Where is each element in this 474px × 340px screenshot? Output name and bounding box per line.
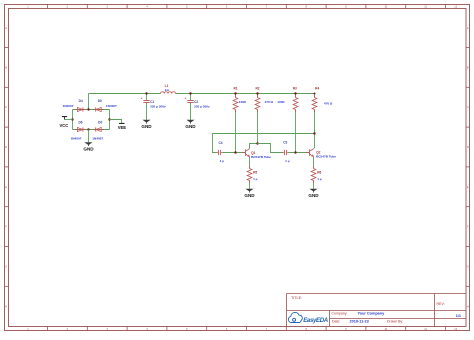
svg-text:470 Ω: 470 Ω: [324, 102, 333, 106]
svg-text:REV:: REV:: [437, 302, 445, 306]
svg-text:220 µ 300v: 220 µ 300v: [150, 105, 166, 109]
svg-text:220 µ 300v: 220 µ 300v: [194, 105, 210, 109]
wire VEE stub: [110, 120, 122, 124]
ground C1: [141, 120, 152, 129]
svg-text:1 µ: 1 µ: [220, 159, 225, 163]
svg-text:1N4007: 1N4007: [106, 104, 117, 108]
svg-text:R5: R5: [253, 171, 257, 175]
title block Company row: [332, 311, 386, 315]
wire C2 stubs: [190, 94, 192, 120]
svg-text:1 µ: 1 µ: [317, 177, 322, 181]
wire bridge right column: [109, 110, 111, 130]
svg-text:1 µ: 1 µ: [285, 159, 290, 163]
node bridge top junction: [87, 108, 89, 110]
svg-text:1N4007: 1N4007: [71, 136, 82, 140]
svg-text:Your Company: Your Company: [358, 311, 386, 315]
wire bridge bottom row: [73, 129, 110, 131]
ground bridge: [83, 142, 94, 151]
svg-text:C3: C3: [283, 141, 287, 145]
svg-text:1m: 1m: [165, 88, 170, 92]
svg-text:C: C: [5, 105, 7, 109]
svg-text:+: +: [141, 97, 143, 101]
svg-text:BC547B Tube: BC547B Tube: [316, 155, 336, 159]
wire Q2 emitter: [313, 157, 315, 189]
svg-text:E: E: [5, 185, 7, 189]
svg-text:D4: D4: [79, 99, 83, 103]
svg-text:470 Ω: 470 Ω: [265, 100, 274, 104]
node C1 bus junction: [145, 92, 147, 94]
wire bridge ground stem: [88, 130, 90, 143]
node C2 bus junction: [189, 92, 191, 94]
svg-text:1N4007: 1N4007: [92, 136, 103, 140]
svg-text:H: H: [467, 304, 469, 308]
svg-text:VCC: VCC: [59, 123, 68, 128]
wire R2 column: [257, 94, 259, 144]
net flag VEE: [118, 123, 127, 129]
node bridge right junction: [108, 118, 110, 120]
svg-text:Date:: Date:: [332, 320, 340, 324]
resistor R2: [255, 87, 273, 113]
svg-text:G: G: [5, 264, 7, 268]
svg-text:E: E: [467, 185, 469, 189]
resistor R1: [233, 87, 247, 113]
svg-text:GND: GND: [185, 124, 196, 129]
svg-text:VEE: VEE: [118, 125, 127, 130]
inductor L1: [161, 84, 176, 93]
svg-text:BC547B Tube: BC547B Tube: [251, 155, 271, 159]
wire main bus left segment: [89, 93, 161, 95]
svg-text:A: A: [467, 26, 469, 30]
svg-text:C4: C4: [218, 141, 222, 145]
node Q1 collector junction: [256, 142, 258, 144]
svg-text:C: C: [467, 105, 469, 109]
node Q1 base junction: [234, 151, 236, 153]
wire C1 stubs: [146, 94, 148, 120]
svg-text:EasyEDA: EasyEDA: [303, 317, 328, 324]
svg-text:A: A: [5, 26, 7, 30]
svg-text:D0: D0: [98, 120, 102, 124]
title block Date row: [332, 320, 403, 324]
svg-text:GND: GND: [244, 193, 255, 198]
node R4 bus junction: [314, 93, 316, 95]
svg-text:100K: 100K: [277, 100, 285, 104]
svg-text:2019-11-23: 2019-11-23: [350, 320, 369, 324]
svg-text:D: D: [5, 145, 7, 149]
svg-text:B: B: [5, 65, 7, 69]
svg-text:R4: R4: [315, 87, 319, 91]
ground R6: [308, 189, 319, 198]
svg-text:GND: GND: [141, 124, 152, 129]
svg-text:D6: D6: [78, 120, 82, 124]
node R2 bus junction: [256, 92, 258, 94]
svg-text:B: B: [467, 65, 469, 69]
node R3 bus junction: [294, 92, 296, 94]
svg-text:G: G: [467, 264, 469, 268]
diode D0 bottom right: [92, 120, 103, 140]
wire C4 to Q1 base: [222, 152, 245, 154]
wire VCC stub: [65, 119, 73, 121]
EasyEDA logo: [288, 312, 327, 324]
svg-text:1/1: 1/1: [456, 314, 461, 318]
node bridge left junction: [71, 118, 73, 120]
resistor R4: [312, 87, 333, 113]
wire Q1 collector jog: [250, 144, 258, 149]
svg-text:1 µ: 1 µ: [253, 177, 258, 181]
svg-text:Company:: Company:: [332, 311, 348, 315]
diode D0 top right: [93, 99, 117, 112]
svg-text:R1: R1: [233, 87, 237, 91]
node Q2 base junction: [294, 151, 296, 153]
wire Q1 collector to C3: [258, 144, 283, 153]
resistor R3: [277, 87, 298, 113]
svg-text:GND: GND: [308, 193, 319, 198]
diode D6: [71, 120, 86, 140]
wire Q2 collector to C4 loop: [213, 134, 315, 153]
svg-text:GND: GND: [83, 147, 94, 152]
resistor R6: [311, 166, 322, 183]
wire R1 column: [235, 94, 237, 153]
resistor R5: [247, 166, 258, 183]
svg-text:R6: R6: [317, 171, 321, 175]
svg-text:R3: R3: [293, 87, 297, 91]
svg-text:Drawn By:: Drawn By:: [387, 320, 403, 324]
svg-text:100K: 100K: [239, 100, 247, 104]
svg-text:+: +: [185, 97, 187, 101]
wire main bus right segment: [176, 93, 315, 95]
node Q2 collector junction: [313, 132, 315, 134]
title block sheet 1/1: [456, 314, 461, 318]
net flag VCC: [59, 117, 68, 129]
transistor Q2: [306, 149, 336, 159]
wire R3 column: [295, 94, 297, 153]
ground C2: [185, 120, 196, 129]
title block grid: [287, 294, 467, 327]
capacitor C3: [282, 141, 290, 164]
svg-text:D0: D0: [98, 99, 102, 103]
svg-text:TITLE:: TITLE:: [291, 296, 302, 300]
node bridge bottom junction: [87, 128, 89, 130]
wire Q1 emitter: [249, 157, 251, 189]
svg-text:D: D: [467, 145, 469, 149]
node R1 bus junction: [234, 92, 236, 94]
wire bridge top row: [73, 109, 110, 111]
capacitor C1: [141, 97, 166, 109]
wire C3 to Q2 base: [288, 152, 309, 154]
title block TITLE label: [291, 296, 302, 300]
wire bridge left column: [72, 110, 74, 130]
capacitor C2: [185, 97, 210, 109]
svg-text:1N4007: 1N4007: [63, 104, 74, 108]
wire R4 column: [314, 94, 316, 149]
diode D4: [63, 99, 86, 112]
wire bridge top to bus: [88, 94, 90, 110]
ground R5: [244, 189, 255, 198]
transistor Q1: [242, 149, 271, 159]
title block REV label: [437, 302, 445, 306]
svg-text:H: H: [5, 304, 7, 308]
capacitor C4: [216, 141, 224, 163]
svg-text:R2: R2: [255, 87, 259, 91]
